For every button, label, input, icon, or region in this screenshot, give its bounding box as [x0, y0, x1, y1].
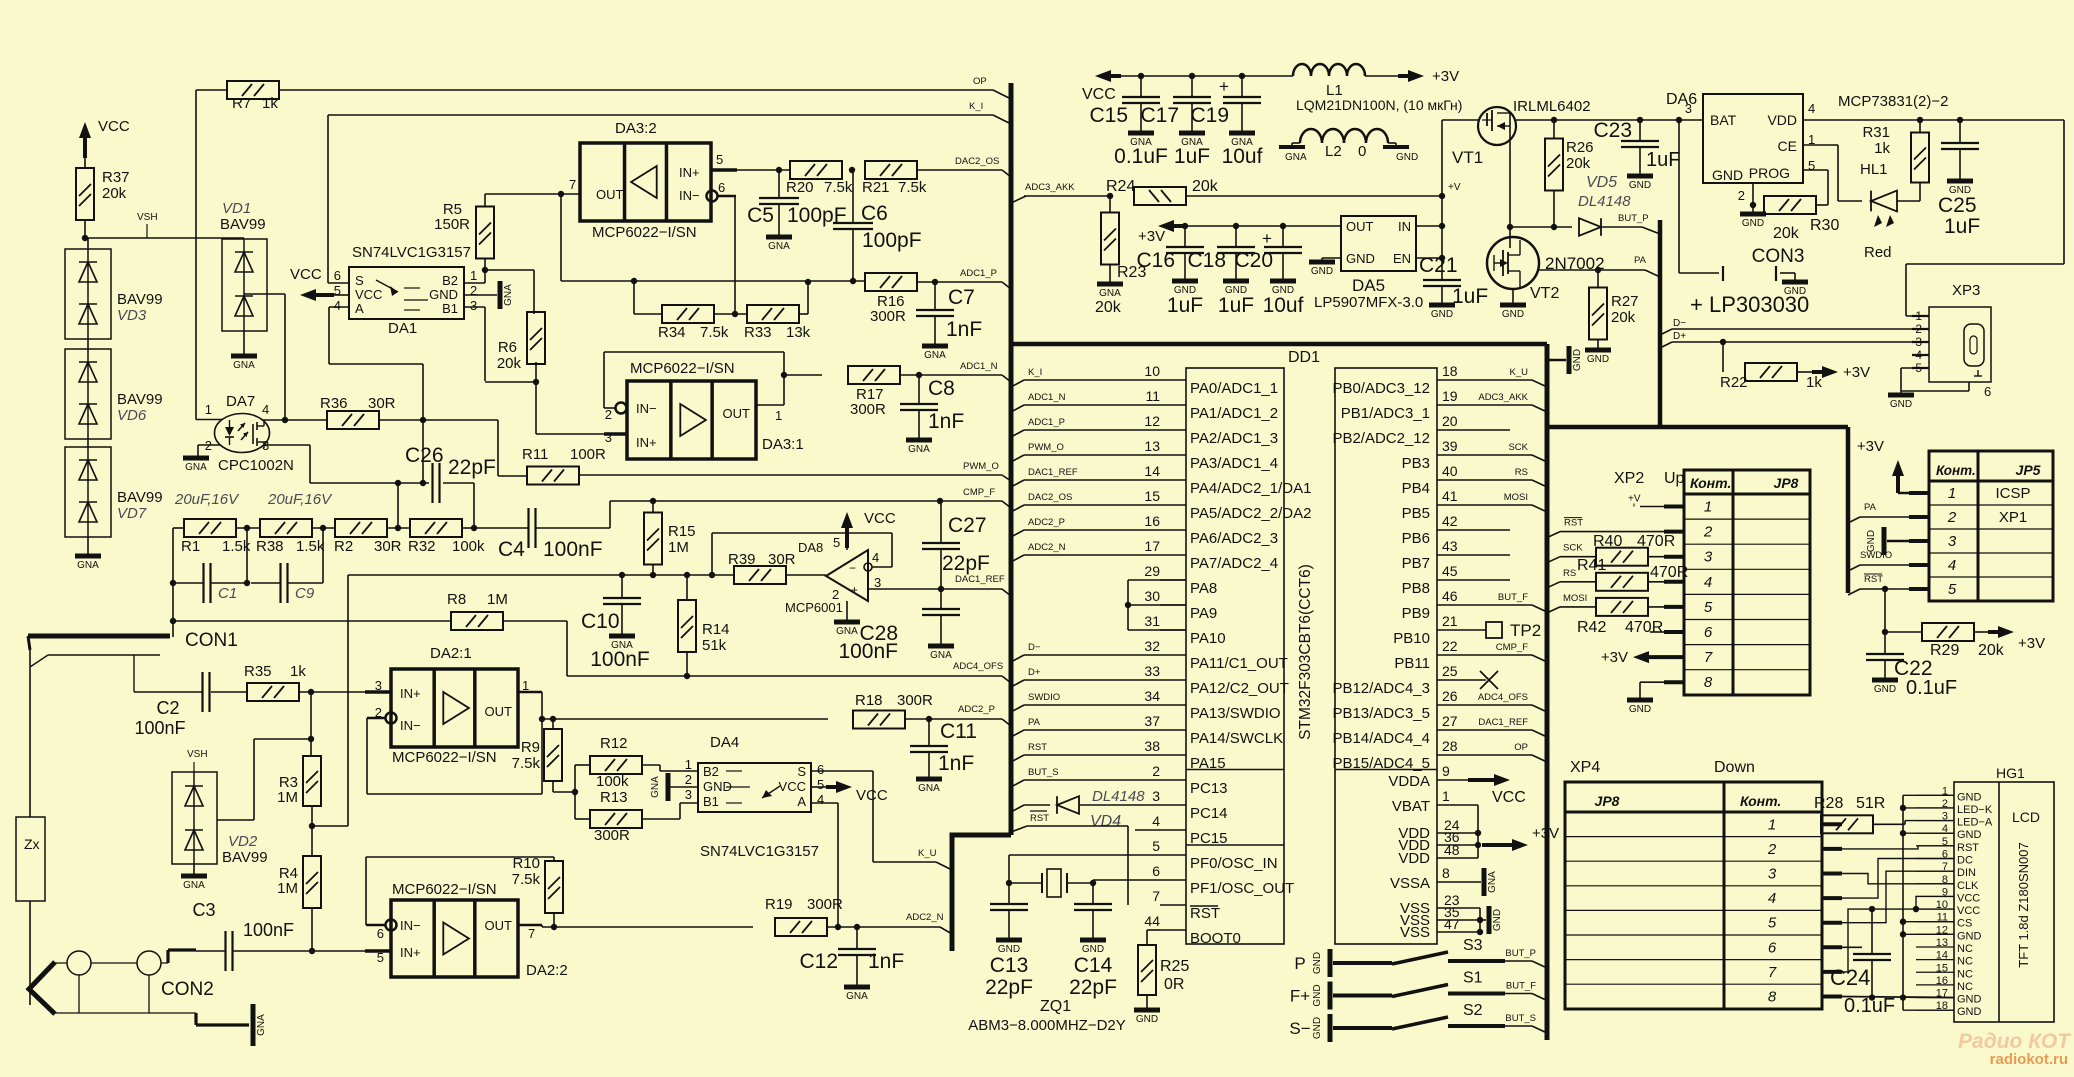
- svg-text:C16: C16: [1136, 249, 1175, 272]
- svg-text:PB13/ADC3_5: PB13/ADC3_5: [1332, 705, 1430, 722]
- svg-text:PC13: PC13: [1190, 780, 1228, 797]
- svg-text:1M: 1M: [277, 880, 298, 897]
- svg-text:R30: R30: [1810, 217, 1839, 234]
- svg-text:20uF,16V: 20uF,16V: [174, 491, 240, 508]
- svg-text:TFT 1.8d Z180SN007: TFT 1.8d Z180SN007: [2016, 842, 2031, 968]
- svg-text:VSH: VSH: [137, 212, 158, 223]
- svg-text:30R: 30R: [768, 551, 796, 568]
- svg-text:8: 8: [1442, 865, 1450, 881]
- svg-text:1M: 1M: [487, 591, 508, 608]
- svg-text:DA8: DA8: [798, 540, 823, 555]
- svg-text:PB14/ADC4_4: PB14/ADC4_4: [1332, 730, 1430, 747]
- svg-text:HG1: HG1: [1996, 765, 2025, 781]
- svg-text:DA7: DA7: [226, 393, 255, 410]
- svg-text:Down: Down: [1714, 759, 1755, 776]
- svg-text:R19: R19: [765, 896, 793, 913]
- svg-text:BAT: BAT: [1710, 112, 1737, 128]
- svg-text:GND: GND: [1629, 704, 1651, 715]
- svg-text:51R: 51R: [1856, 795, 1885, 812]
- svg-text:R7: R7: [232, 95, 251, 112]
- svg-text:RST: RST: [1957, 842, 1979, 854]
- svg-text:R32: R32: [408, 538, 436, 555]
- svg-text:22pF: 22pF: [942, 552, 990, 575]
- svg-text:S2: S2: [1463, 1002, 1483, 1019]
- svg-text:GND: GND: [1874, 684, 1896, 695]
- svg-text:19: 19: [1442, 388, 1458, 404]
- svg-text:PA: PA: [1864, 502, 1877, 513]
- svg-text:VD2: VD2: [228, 833, 258, 850]
- svg-text:4: 4: [1948, 557, 1956, 574]
- svg-text:−: −: [849, 561, 856, 575]
- svg-text:0R: 0R: [1164, 976, 1184, 993]
- svg-text:7.5k: 7.5k: [512, 871, 541, 888]
- svg-text:GNA: GNA: [503, 284, 514, 306]
- svg-text:VCC: VCC: [1082, 86, 1116, 103]
- svg-text:Конт.: Конт.: [1936, 463, 1976, 478]
- svg-text:7.5k: 7.5k: [824, 179, 853, 196]
- svg-text:GND: GND: [1629, 180, 1651, 191]
- svg-text:+3V: +3V: [1432, 68, 1459, 85]
- svg-text:MCP6022−I/SN: MCP6022−I/SN: [592, 224, 697, 241]
- svg-text:IRLML6402: IRLML6402: [1513, 98, 1591, 115]
- svg-text:29: 29: [1144, 563, 1160, 579]
- svg-text:GNA: GNA: [77, 560, 99, 571]
- svg-text:RST: RST: [1564, 518, 1583, 529]
- svg-text:300R: 300R: [870, 308, 906, 325]
- svg-text:GND: GND: [1957, 829, 1982, 841]
- svg-text:BUT_S: BUT_S: [1028, 767, 1059, 778]
- svg-text:2: 2: [1738, 188, 1745, 203]
- svg-text:5: 5: [833, 535, 840, 550]
- svg-text:R2: R2: [334, 538, 353, 555]
- svg-text:PA1/ADC1_2: PA1/ADC1_2: [1190, 405, 1278, 422]
- svg-text:SWDIO: SWDIO: [1860, 550, 1892, 561]
- svg-text:VD7: VD7: [117, 505, 147, 522]
- svg-text:Радио КОТ: Радио КОТ: [1958, 1030, 2072, 1053]
- svg-text:PA14/SWCLK: PA14/SWCLK: [1190, 730, 1283, 747]
- svg-text:100nF: 100nF: [838, 640, 898, 663]
- svg-text:R27: R27: [1611, 293, 1639, 310]
- svg-text:R9: R9: [521, 739, 540, 756]
- svg-text:CON1: CON1: [185, 630, 238, 651]
- svg-text:BUT_P: BUT_P: [1618, 213, 1649, 224]
- svg-text:RST: RST: [1030, 813, 1049, 824]
- svg-text:R38: R38: [256, 538, 284, 555]
- svg-text:GNA: GNA: [1099, 288, 1121, 299]
- svg-text:8: 8: [1704, 674, 1713, 691]
- svg-text:VD1: VD1: [222, 200, 251, 217]
- svg-text:17: 17: [1144, 538, 1160, 554]
- svg-text:EN: EN: [1393, 251, 1411, 266]
- svg-text:4: 4: [817, 792, 824, 807]
- svg-text:40: 40: [1442, 463, 1458, 479]
- svg-text:C21: C21: [1419, 254, 1458, 277]
- svg-text:300R: 300R: [594, 827, 630, 844]
- svg-text:DA2:2: DA2:2: [526, 962, 568, 979]
- svg-text:11: 11: [1145, 388, 1160, 404]
- svg-text:38: 38: [1144, 738, 1160, 754]
- svg-text:20k: 20k: [1611, 309, 1636, 326]
- svg-text:R29: R29: [1930, 642, 1959, 659]
- svg-text:PB10: PB10: [1393, 630, 1430, 647]
- svg-text:3: 3: [1685, 101, 1692, 116]
- svg-text:DL4148: DL4148: [1578, 193, 1631, 210]
- svg-text:0.1uF: 0.1uF: [1844, 995, 1895, 1017]
- svg-text:4: 4: [1704, 574, 1712, 591]
- svg-text:3: 3: [375, 678, 382, 693]
- svg-text:CMP_F: CMP_F: [1496, 642, 1528, 653]
- svg-text:GNA: GNA: [908, 444, 930, 455]
- svg-text:C10: C10: [581, 610, 620, 633]
- svg-text:Zx: Zx: [24, 836, 40, 852]
- svg-text:0: 0: [1358, 143, 1366, 160]
- svg-text:PB11: PB11: [1394, 655, 1430, 672]
- svg-text:20k: 20k: [1192, 178, 1219, 195]
- svg-text:CMP_F: CMP_F: [963, 487, 995, 498]
- svg-text:LED−K: LED−K: [1957, 804, 1993, 816]
- svg-text:NC: NC: [1957, 956, 1973, 968]
- svg-text:R15: R15: [668, 523, 696, 540]
- svg-text:GND: GND: [1311, 266, 1333, 277]
- svg-text:PWM_O: PWM_O: [963, 461, 999, 472]
- svg-text:VBAT: VBAT: [1392, 798, 1430, 815]
- svg-text:45: 45: [1442, 563, 1458, 579]
- svg-text:300R: 300R: [807, 896, 843, 913]
- svg-text:1M: 1M: [668, 539, 689, 556]
- svg-text:20k: 20k: [1773, 225, 1800, 242]
- svg-text:GND: GND: [1312, 952, 1323, 974]
- svg-text:C7: C7: [948, 286, 975, 309]
- svg-text:GND: GND: [1890, 399, 1912, 410]
- svg-text:DIN: DIN: [1957, 867, 1976, 879]
- svg-text:ADC2_P: ADC2_P: [958, 704, 995, 715]
- svg-text:SCK: SCK: [1563, 543, 1583, 554]
- svg-text:1uF: 1uF: [1218, 294, 1254, 317]
- svg-text:6: 6: [1984, 384, 1991, 399]
- svg-text:4: 4: [1808, 101, 1815, 116]
- svg-text:PA2/ADC1_3: PA2/ADC1_3: [1190, 430, 1278, 447]
- svg-text:ZQ1: ZQ1: [1040, 998, 1071, 1015]
- svg-text:+3V: +3V: [1601, 649, 1628, 666]
- svg-text:ICSP: ICSP: [1995, 485, 2030, 502]
- svg-text:20k: 20k: [497, 355, 522, 372]
- svg-text:DD1: DD1: [1288, 349, 1320, 366]
- svg-text:GNA: GNA: [768, 241, 790, 252]
- svg-text:R26: R26: [1566, 139, 1594, 156]
- svg-text:PA: PA: [1634, 255, 1647, 266]
- svg-text:PC15: PC15: [1190, 830, 1228, 847]
- svg-text:MCP6022−I/SN: MCP6022−I/SN: [392, 881, 497, 898]
- svg-text:VT2: VT2: [1530, 285, 1559, 302]
- svg-text:GNA: GNA: [924, 350, 946, 361]
- svg-text:IN−: IN−: [400, 918, 421, 933]
- svg-text:GND: GND: [1312, 984, 1323, 1006]
- svg-text:10uf: 10uf: [1263, 294, 1304, 317]
- svg-text:100nF: 100nF: [243, 920, 294, 940]
- svg-text:C1: C1: [218, 585, 237, 602]
- svg-text:NC: NC: [1957, 943, 1973, 955]
- svg-text:OUT: OUT: [1346, 219, 1374, 234]
- svg-text:K_U: K_U: [1510, 367, 1529, 378]
- svg-text:1k: 1k: [1806, 374, 1822, 391]
- svg-text:2: 2: [1947, 509, 1957, 526]
- svg-text:DA3:2: DA3:2: [615, 120, 657, 137]
- svg-text:S: S: [797, 764, 806, 779]
- svg-text:+: +: [1262, 229, 1272, 248]
- svg-text:1k: 1k: [262, 95, 278, 112]
- svg-text:+3V: +3V: [1843, 364, 1870, 381]
- svg-text:BAV99: BAV99: [117, 391, 163, 408]
- svg-text:30R: 30R: [374, 538, 402, 555]
- svg-text:16: 16: [1144, 513, 1160, 529]
- svg-text:+3V: +3V: [1138, 228, 1165, 245]
- svg-text:7.5k: 7.5k: [700, 324, 729, 341]
- svg-text:100nF: 100nF: [590, 648, 650, 671]
- svg-text:IN−: IN−: [679, 188, 700, 203]
- svg-text:PA13/SWDIO: PA13/SWDIO: [1190, 705, 1281, 722]
- svg-text:OP: OP: [973, 76, 987, 87]
- svg-text:+V: +V: [1448, 182, 1461, 193]
- svg-text:+: +: [1219, 77, 1229, 96]
- svg-text:20k: 20k: [102, 185, 127, 202]
- svg-text:C23: C23: [1593, 119, 1632, 142]
- svg-text:D+: D+: [1673, 331, 1686, 342]
- svg-text:R37: R37: [102, 169, 130, 186]
- svg-text:VCC: VCC: [864, 510, 896, 527]
- svg-text:GND: GND: [1712, 167, 1743, 183]
- svg-text:R14: R14: [702, 621, 730, 638]
- svg-text:P: P: [1294, 954, 1305, 973]
- svg-text:R42: R42: [1577, 619, 1606, 636]
- svg-text:IN+: IN+: [636, 435, 657, 450]
- svg-text:PF1/OSC_OUT: PF1/OSC_OUT: [1190, 880, 1294, 897]
- svg-text:MCP6022−I/SN: MCP6022−I/SN: [392, 749, 497, 766]
- svg-text:VCC: VCC: [1492, 789, 1526, 806]
- svg-text:PF0/OSC_IN: PF0/OSC_IN: [1190, 855, 1278, 872]
- svg-text:PA3/ADC1_4: PA3/ADC1_4: [1190, 455, 1278, 472]
- svg-text:IN−: IN−: [636, 401, 657, 416]
- svg-text:GND: GND: [1587, 354, 1609, 365]
- svg-text:ADC3_AKK: ADC3_AKK: [1025, 182, 1075, 193]
- svg-text:RS: RS: [1563, 568, 1576, 579]
- svg-text:R31: R31: [1862, 124, 1890, 141]
- svg-text:OUT: OUT: [485, 704, 513, 719]
- svg-text:A: A: [797, 794, 806, 809]
- svg-text:GNA: GNA: [930, 650, 952, 661]
- svg-text:GNA: GNA: [256, 1014, 267, 1036]
- svg-text:SCK: SCK: [1508, 442, 1528, 453]
- svg-text:PA5/ADC2_2/DA2: PA5/ADC2_2/DA2: [1190, 505, 1311, 522]
- svg-text:ADC2_N: ADC2_N: [1028, 542, 1066, 553]
- svg-text:CS: CS: [1957, 918, 1972, 930]
- svg-text:22pF: 22pF: [1069, 976, 1117, 999]
- svg-text:R36: R36: [320, 395, 348, 412]
- svg-text:3: 3: [470, 298, 477, 313]
- svg-text:ABM3−8.000MHZ−D2Y: ABM3−8.000MHZ−D2Y: [968, 1017, 1126, 1034]
- svg-text:10: 10: [1144, 363, 1160, 379]
- svg-text:ADC4_OFS: ADC4_OFS: [953, 661, 1003, 672]
- svg-text:41: 41: [1442, 488, 1458, 504]
- svg-text:PA8: PA8: [1190, 580, 1217, 597]
- svg-text:13k: 13k: [786, 324, 811, 341]
- svg-text:1: 1: [685, 757, 692, 772]
- svg-text:PWM_O: PWM_O: [1028, 442, 1064, 453]
- svg-text:7: 7: [528, 926, 535, 941]
- svg-text:6: 6: [1768, 939, 1777, 956]
- svg-text:1: 1: [775, 408, 782, 423]
- svg-text:48: 48: [1444, 842, 1460, 858]
- svg-text:IN+: IN+: [400, 945, 421, 960]
- svg-text:R1: R1: [181, 538, 200, 555]
- svg-text:ADC2_P: ADC2_P: [1028, 517, 1065, 528]
- svg-text:1nF: 1nF: [928, 410, 964, 433]
- svg-text:3: 3: [685, 787, 692, 802]
- svg-text:5: 5: [817, 777, 824, 792]
- svg-text:CON2: CON2: [161, 979, 214, 1000]
- svg-text:BAV99: BAV99: [220, 216, 266, 233]
- svg-text:51k: 51k: [702, 637, 727, 654]
- svg-text:14: 14: [1144, 463, 1160, 479]
- svg-text:S3: S3: [1463, 937, 1483, 954]
- svg-text:42: 42: [1442, 513, 1458, 529]
- svg-text:28: 28: [1442, 738, 1458, 754]
- svg-text:IN: IN: [1398, 219, 1411, 234]
- svg-text:SN74LVC1G3157: SN74LVC1G3157: [352, 244, 471, 261]
- svg-text:VSS: VSS: [1400, 924, 1430, 941]
- svg-text:R33: R33: [744, 324, 772, 341]
- svg-text:PB1/ADC3_1: PB1/ADC3_1: [1341, 405, 1430, 422]
- svg-text:GNA: GNA: [183, 880, 205, 891]
- svg-text:DAC2_OS: DAC2_OS: [1028, 492, 1072, 503]
- svg-text:20k: 20k: [1095, 299, 1122, 316]
- svg-text:VD6: VD6: [117, 407, 147, 424]
- svg-text:DAC1_REF: DAC1_REF: [1478, 717, 1528, 728]
- svg-text:GND: GND: [1957, 791, 1982, 803]
- svg-text:PB3: PB3: [1402, 455, 1430, 472]
- svg-text:1uF: 1uF: [1646, 149, 1680, 171]
- svg-text:C26: C26: [405, 444, 444, 467]
- svg-text:21: 21: [1442, 613, 1458, 629]
- svg-text:R25: R25: [1160, 958, 1189, 975]
- svg-text:C4: C4: [498, 538, 525, 561]
- svg-text:VCC: VCC: [355, 287, 382, 302]
- svg-text:BAV99: BAV99: [222, 849, 268, 866]
- svg-text:B2: B2: [703, 764, 719, 779]
- svg-text:GND: GND: [1312, 1017, 1323, 1039]
- svg-text:IN+: IN+: [400, 686, 421, 701]
- svg-text:PA9: PA9: [1190, 605, 1217, 622]
- svg-text:+: +: [851, 583, 858, 597]
- svg-text:PA0/ADC1_1: PA0/ADC1_1: [1190, 380, 1278, 397]
- svg-text:OUT: OUT: [723, 406, 751, 421]
- svg-text:VSH: VSH: [187, 749, 208, 760]
- svg-text:R22: R22: [1720, 374, 1748, 391]
- svg-text:PB9: PB9: [1402, 605, 1430, 622]
- svg-text:ADC2_N: ADC2_N: [906, 912, 944, 923]
- svg-text:PB6: PB6: [1402, 530, 1430, 547]
- svg-text:VD3: VD3: [117, 307, 147, 324]
- svg-text:PB7: PB7: [1402, 555, 1430, 572]
- svg-text:DA6: DA6: [1666, 91, 1697, 108]
- svg-text:1: 1: [1948, 485, 1956, 502]
- svg-text:Конт.: Конт.: [1690, 475, 1731, 491]
- svg-text:7: 7: [1152, 888, 1160, 904]
- svg-text:4: 4: [1768, 890, 1776, 907]
- svg-text:PA: PA: [1028, 717, 1041, 728]
- svg-text:43: 43: [1442, 538, 1458, 554]
- svg-text:100R: 100R: [570, 446, 606, 463]
- svg-text:GND: GND: [1957, 930, 1982, 942]
- svg-text:3: 3: [1768, 866, 1777, 883]
- svg-text:GND: GND: [1492, 909, 1503, 931]
- svg-text:NC: NC: [1957, 968, 1973, 980]
- svg-text:GND: GND: [1431, 309, 1453, 320]
- svg-text:R6: R6: [498, 339, 517, 356]
- svg-text:GND: GND: [1957, 1006, 1982, 1018]
- svg-text:+ LP303030: + LP303030: [1690, 292, 1809, 317]
- svg-text:Up: Up: [1664, 470, 1685, 487]
- svg-text:CON3: CON3: [1752, 246, 1805, 267]
- svg-text:1nF: 1nF: [938, 752, 974, 775]
- svg-text:C5: C5: [747, 204, 774, 227]
- svg-text:8: 8: [1768, 989, 1777, 1006]
- svg-text:7.5k: 7.5k: [512, 755, 541, 772]
- svg-text:7: 7: [1768, 964, 1777, 981]
- svg-text:Конт.: Конт.: [1740, 793, 1781, 809]
- svg-text:D+: D+: [1028, 667, 1041, 678]
- svg-text:DA2:1: DA2:1: [430, 645, 472, 662]
- svg-text:6: 6: [817, 762, 824, 777]
- svg-text:OUT: OUT: [596, 187, 624, 202]
- svg-text:A: A: [355, 301, 364, 316]
- svg-text:4: 4: [872, 550, 879, 565]
- svg-text:25: 25: [1442, 663, 1458, 679]
- svg-text:0.1uF: 0.1uF: [1906, 677, 1957, 699]
- svg-text:9: 9: [1442, 763, 1450, 779]
- svg-text:46: 46: [1442, 588, 1458, 604]
- svg-text:27: 27: [1442, 713, 1458, 729]
- svg-text:BUT_F: BUT_F: [1506, 981, 1536, 992]
- svg-text:33: 33: [1144, 663, 1160, 679]
- svg-text:2: 2: [1703, 524, 1713, 541]
- svg-text:C13: C13: [990, 954, 1029, 977]
- svg-text:LQM21DN100N, (10 мкГн): LQM21DN100N, (10 мкГн): [1296, 97, 1462, 113]
- svg-text:PA11/C1_OUT: PA11/C1_OUT: [1190, 655, 1288, 672]
- svg-text:IN−: IN−: [400, 718, 421, 733]
- svg-text:100nF: 100nF: [543, 538, 603, 561]
- svg-text:6: 6: [334, 268, 341, 283]
- svg-text:C8: C8: [928, 377, 955, 400]
- svg-text:ADC1_N: ADC1_N: [960, 361, 998, 372]
- svg-text:3: 3: [1948, 533, 1957, 550]
- svg-text:1: 1: [1442, 788, 1450, 804]
- svg-text:PB8: PB8: [1402, 580, 1430, 597]
- svg-text:+V: +V: [1628, 494, 1641, 505]
- svg-text:PB0/ADC3_12: PB0/ADC3_12: [1332, 380, 1430, 397]
- svg-text:PB12/ADC4_3: PB12/ADC4_3: [1332, 680, 1430, 697]
- svg-text:GNA: GNA: [1285, 152, 1307, 163]
- svg-text:10uf: 10uf: [1222, 145, 1263, 168]
- svg-text:20uF,16V: 20uF,16V: [267, 491, 333, 508]
- svg-text:VDD: VDD: [1398, 850, 1430, 867]
- svg-text:300R: 300R: [897, 692, 933, 709]
- svg-text:GND: GND: [1957, 994, 1982, 1006]
- svg-text:MCP6001: MCP6001: [785, 600, 843, 615]
- svg-text:GND: GND: [1572, 349, 1583, 371]
- svg-text:15: 15: [1144, 488, 1160, 504]
- svg-text:ADC1_P: ADC1_P: [960, 268, 997, 279]
- svg-text:VCC: VCC: [98, 118, 130, 135]
